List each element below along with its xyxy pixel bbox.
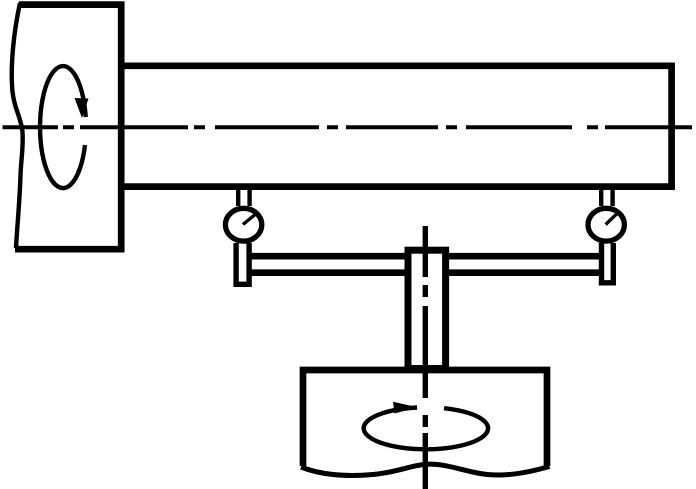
center clamp (post holder) [408, 250, 446, 368]
base rotation arrow (ellipse arc) [364, 402, 488, 449]
base block break-line (wavy bottom edge) [301, 464, 550, 475]
chuck break-line (wavy left edge) [12, 3, 23, 248]
dial indicator DI2 body [588, 208, 624, 241]
dial indicator DI1 contact stem [238, 187, 249, 207]
base block (rotary table) outline [303, 370, 547, 466]
crossbar (indicator bridge) right segment [443, 256, 610, 273]
dial indicator DI2 lower stem [602, 243, 614, 283]
dial indicator DI1 body [225, 208, 261, 241]
dial indicator DI2 contact stem [601, 187, 612, 207]
horizontal centerline (shaft axis) [3, 125, 693, 129]
chuck (spindle block) outline [15, 5, 121, 250]
vertical centerline (post axis) [423, 226, 428, 489]
chuck rotation arrow (ellipse arc) [40, 66, 88, 188]
shaft (workpiece) outline [121, 66, 672, 187]
crossbar (indicator bridge) left segment [244, 256, 410, 273]
dial indicator DI1 needle [243, 213, 258, 225]
dial indicator DI1 lower stem [236, 243, 249, 284]
dial indicator DI2 needle [606, 212, 619, 224]
